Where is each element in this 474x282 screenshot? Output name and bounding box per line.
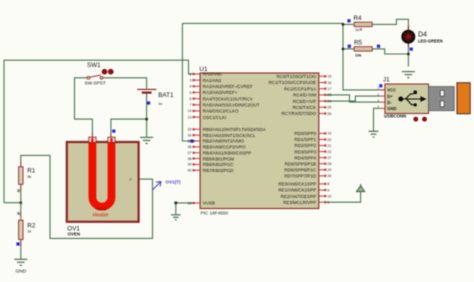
svg-text:D4: D4 [418, 32, 427, 39]
svg-text:2: 2 [190, 72, 192, 76]
svg-text:RA6/OSC2/CLKO: RA6/OSC2/CLKO [203, 109, 239, 114]
resistor R1 [20, 161, 22, 168]
LED D4 [407, 26, 409, 30]
U1 pin 27 RD4/SPP4 [319, 157, 327, 159]
svg-text:R2: R2 [27, 222, 36, 229]
node marker below R2 [16, 242, 19, 245]
wire from top rail down to U1 pin RB2 [182, 23, 194, 141]
wire T-sense loop: oven T pin to R1 top [21, 155, 153, 238]
svg-text:25: 25 [327, 106, 331, 110]
switch SW1 [87, 75, 103, 79]
svg-text:28: 28 [327, 162, 331, 166]
wire R2 bottom to ground [20, 239, 22, 258]
origin marker R2 [17, 212, 20, 215]
svg-text:R5: R5 [354, 40, 363, 47]
U1 pin 40 RB7/KBI3/PGD [193, 169, 201, 171]
svg-text:R4: R4 [354, 15, 363, 22]
svg-text:RA2/AN2/VREF-/CVREF: RA2/AN2/VREF-/CVREF [203, 84, 253, 89]
U1 pin 1 RE3/MCLR/VPP [319, 201, 327, 203]
svg-text:39: 39 [188, 163, 192, 167]
wire U1 pin 24 D+ to J1 D+ [326, 96, 381, 101]
svg-text:10k: 10k [355, 53, 362, 57]
svg-text:RA4/T0CKI/C1OUT/RCV: RA4/T0CKI/C1OUT/RCV [203, 96, 253, 101]
svg-text:RC7/RX/DT/SDO: RC7/RX/DT/SDO [281, 111, 316, 116]
oven pin sockets [89, 137, 96, 142]
svg-text:19: 19 [327, 132, 331, 136]
svg-text:RB7/KBI3/PGD: RB7/KBI3/PGD [203, 168, 235, 173]
wire RA0 net: divider mid to U1 pin 2 [4, 60, 194, 203]
svg-text:OV1(T): OV1(T) [166, 179, 182, 184]
svg-text:RA5/AN4/SS/LVDIN/C2OUT: RA5/AN4/SS/LVDIN/C2OUT [203, 102, 260, 107]
wire SW1 right to battery top [103, 78, 147, 89]
wire J1 GND pin to ground [374, 108, 381, 131]
node marker at BAT1 [147, 101, 150, 104]
ground at VUSB [171, 215, 181, 220]
svg-text:R1: R1 [27, 168, 36, 175]
junction node R1/R2 midpoint [19, 201, 22, 204]
svg-text:GND: GND [387, 106, 396, 111]
junction node at rail/R4 [342, 23, 345, 26]
svg-text:RD1/SPP1: RD1/SPP1 [294, 137, 316, 142]
wire U1 pin 23 D- to J1 D- [326, 95, 381, 102]
marker at RB2 wire [190, 140, 193, 143]
U1 pin 26 RC7/RX/DT/SDO [319, 112, 327, 114]
U1 pin 34 RB1/AN10/INT1/SCK/SCL [193, 134, 201, 136]
svg-text:36: 36 [188, 145, 192, 149]
svg-text:VCC: VCC [387, 88, 396, 93]
wire VUSB pin 18 to ground [176, 203, 194, 214]
svg-text:22: 22 [327, 150, 331, 154]
svg-text:RD0/SPP0: RD0/SPP0 [294, 131, 316, 136]
U1 pin 14 RA6/OSC2/CLKO [193, 110, 201, 112]
ground below J1 GND [369, 131, 379, 137]
svg-text:RD6/SPP6/P1C: RD6/SPP6/P1C [284, 167, 317, 172]
svg-text:14: 14 [188, 109, 192, 113]
svg-text:RA3/AN3/VREF+: RA3/AN3/VREF+ [203, 90, 238, 95]
oven pin 1 lead [91, 133, 93, 139]
svg-text:RB2/AN8/INT2/VMO: RB2/AN8/INT2/VMO [203, 139, 245, 144]
U1 pin 8 RE0/AN5/CK1SPP [319, 183, 327, 185]
SW1 actuator dots [102, 69, 107, 74]
ground below battery [140, 137, 153, 143]
J1 actuator dots [414, 117, 418, 121]
svg-text:RD7/SPP7/P1D: RD7/SPP7/P1D [284, 174, 317, 179]
power terminal at MCLR [357, 184, 365, 192]
svg-text:RD3/SPP3: RD3/SPP3 [294, 149, 316, 154]
wire SW1 left to oven pin 1 [75, 78, 93, 134]
ground below R2 [14, 259, 27, 265]
U1 pin 23 RC4/D-/VM [319, 94, 327, 96]
svg-text:37: 37 [188, 151, 192, 155]
U1 pin 38 RB5/KBI1/PGM [193, 157, 201, 159]
U1 pin 16 RC1/T1OSI/CCP2/UOE [319, 81, 327, 83]
oven heater element [92, 143, 111, 207]
U1 pin 21 RD2/SPP2 [319, 144, 327, 146]
svg-text:16: 16 [327, 81, 331, 85]
svg-text:23: 23 [327, 93, 331, 97]
node marker R4 left [347, 19, 350, 22]
LED cathode lead [407, 44, 409, 48]
U1 pin 37 RB4/AN11/KBI0/CSSPP [193, 152, 201, 154]
svg-text:RB1/AN10/INT1/SCK/SCL: RB1/AN10/INT1/SCK/SCL [203, 133, 256, 138]
svg-text:6: 6 [190, 97, 192, 101]
USB plug shell [429, 87, 455, 111]
U1 pin 20 RD1/SPP1 [319, 138, 327, 140]
svg-text:29: 29 [327, 168, 331, 172]
svg-text:VUSB: VUSB [203, 201, 215, 206]
svg-text:5: 5 [190, 91, 192, 95]
origin marker R1 [17, 189, 20, 192]
wire VCC top rail from U1 area to R4/R5/J1 rail [182, 23, 385, 90]
junction node battery minus [145, 118, 148, 121]
junction node LED cathode [407, 53, 410, 56]
U1 pin 29 RD6/SPP6/P1C [319, 169, 327, 171]
svg-text:9: 9 [327, 188, 329, 192]
resistor R4 [354, 22, 372, 26]
svg-text:PIC 18F4550: PIC 18F4550 [201, 210, 229, 215]
node marker R5 left [348, 45, 351, 48]
oven pin 2 lead [110, 133, 112, 139]
svg-text:1k: 1k [355, 28, 359, 32]
node marker R5 right [377, 45, 380, 48]
wire R1 bottom to junction to R2 top [20, 184, 22, 217]
svg-text:RE3/MCLR/VPP: RE3/MCLR/VPP [283, 200, 316, 205]
svg-text:RD4/SPP4: RD4/SPP4 [294, 155, 316, 160]
svg-text:RA0/AN0: RA0/AN0 [203, 72, 222, 77]
U1 pin 36 RB3/AN9/CCP2/VPO [193, 146, 201, 148]
U1 pin 30 RD7/SPP7/P1D [319, 175, 327, 177]
svg-text:RA1/AN1: RA1/AN1 [203, 78, 222, 83]
wire R5 left to rail [343, 48, 355, 50]
wire R4 right to LED D4 anode [372, 19, 408, 30]
svg-text:4: 4 [190, 85, 192, 89]
battery BAT1 [137, 89, 156, 92]
svg-text:RC6/TX/CK: RC6/TX/CK [293, 105, 317, 110]
U1 pin 7 RA5/AN4/SS/LVDIN/C2OUT [193, 104, 201, 106]
svg-text:15: 15 [327, 75, 331, 79]
resistor R2 [20, 214, 22, 221]
svg-text:RB6/KBI2/PGC: RB6/KBI2/PGC [203, 162, 235, 167]
svg-text:18: 18 [188, 201, 192, 205]
svg-text:Heater: Heater [93, 213, 109, 219]
U1 pin 24 RC5/D+/VP [319, 100, 327, 102]
node marker at oven pin 2 [112, 130, 115, 133]
svg-text:40: 40 [188, 169, 192, 173]
U1 pin 10 RE2/AN7/OESPP [319, 195, 327, 197]
U1 pin 18 VUSB [193, 202, 201, 204]
svg-text:RC2/CCP1/P1A: RC2/CCP1/P1A [284, 86, 316, 91]
svg-text:RB0/AN12/INT0/FLT0/SDI/SDA: RB0/AN12/INT0/FLT0/SDI/SDA [203, 127, 266, 132]
svg-text:27: 27 [327, 156, 331, 160]
svg-text:RB3/AN9/CCP2/VPO: RB3/AN9/CCP2/VPO [203, 145, 246, 150]
wire LED cathode to junction to ground [407, 44, 409, 67]
U1 pin 39 RB6/KBI2/PGC [193, 163, 201, 165]
svg-text:RC5/D+/VP: RC5/D+/VP [293, 99, 316, 104]
U1 pin 3 RA1/AN1 [193, 79, 201, 81]
svg-text:10: 10 [327, 194, 331, 198]
svg-text:26: 26 [327, 112, 331, 116]
U1 pin 35 RB2/AN8/INT2/VMO [193, 140, 201, 142]
svg-text:RD5/SPP5/P1B: RD5/SPP5/P1B [285, 161, 317, 166]
wire divider junction to rail [4, 202, 21, 204]
U1 pin 5 RA3/AN3/VREF+ [193, 91, 201, 93]
svg-text:24: 24 [327, 99, 331, 103]
node marker J1 VCC [379, 84, 382, 87]
origin marker R4 [360, 28, 362, 30]
U1 pin 19 RD0/SPP0 [319, 132, 327, 134]
USB trident symbol [399, 91, 427, 107]
svg-text:RB4/AN11/KBI0/CSSPP: RB4/AN11/KBI0/CSSPP [203, 150, 251, 155]
svg-text:RC4/D-/VM: RC4/D-/VM [293, 93, 316, 98]
ground below LED [402, 72, 415, 78]
USB plug overmold [457, 83, 470, 114]
svg-text:33: 33 [188, 128, 192, 132]
svg-text:3: 3 [190, 78, 192, 82]
U1 pin 17 RC2/CCP1/P1A [319, 88, 327, 90]
svg-text:17: 17 [327, 87, 331, 91]
svg-text:D-: D- [387, 100, 392, 105]
junction node at rail/R5 [342, 48, 345, 51]
svg-text:8: 8 [327, 182, 329, 186]
svg-text:1k: 1k [27, 230, 31, 234]
svg-text:21: 21 [327, 144, 331, 148]
oven OV1 body [67, 142, 139, 222]
microcontroller U1 PIC18F4550 [200, 73, 319, 209]
svg-text:BAT1: BAT1 [158, 92, 174, 99]
wire R4 left to rail [343, 23, 355, 25]
svg-text:13: 13 [188, 115, 192, 119]
wire R5 right to LED cathode junction [372, 49, 408, 54]
svg-text:RD2/SPP2: RD2/SPP2 [294, 143, 316, 148]
U1 pin 9 RE1/AN6/CK2SPP [319, 189, 327, 191]
svg-text:RE2/AN7/OESPP: RE2/AN7/OESPP [281, 194, 317, 199]
svg-text:RC0/T1OSO/T1CKI: RC0/T1OSO/T1CKI [277, 74, 317, 79]
U1 pin 28 RD5/SPP5/P1B [319, 163, 327, 165]
svg-text:LED-GREEN: LED-GREEN [418, 39, 443, 44]
U1 pin 4 RA2/AN2/VREF-/CVREF [193, 85, 201, 87]
svg-text:RE0/AN5/CK1SPP: RE0/AN5/CK1SPP [278, 182, 316, 187]
svg-text:SW1: SW1 [87, 62, 101, 69]
svg-text:OSC1/CLKI: OSC1/CLKI [203, 115, 227, 120]
U1 pin 15 RC0/T1OSO/T1CKI [319, 75, 327, 77]
svg-text:4v: 4v [158, 102, 162, 106]
U1 pin 13 OSC1/CLKI [193, 116, 201, 118]
svg-text:USBCONN: USBCONN [384, 114, 406, 119]
svg-text:RE1/AN6/CK2SPP: RE1/AN6/CK2SPP [278, 188, 316, 193]
svg-text:30: 30 [327, 174, 331, 178]
svg-text:+00.0: +00.0 [95, 207, 107, 212]
svg-text:SW-SPST: SW-SPST [85, 80, 106, 85]
svg-text:RC1/T1OSI/CCP2/UOE: RC1/T1OSI/CCP2/UOE [269, 80, 317, 85]
svg-text:RB5/KBI1/PGM: RB5/KBI1/PGM [203, 156, 235, 161]
USB connector J1 [385, 84, 429, 114]
svg-text:J1: J1 [383, 76, 390, 83]
svg-text:D+: D+ [387, 94, 393, 99]
svg-text:34: 34 [188, 133, 192, 137]
U1 pin 2 RA0/AN0 [193, 73, 201, 75]
svg-text:7: 7 [190, 103, 192, 107]
U1 pin 6 RA4/T0CKI/C1OUT/RCV [193, 98, 201, 100]
svg-text:GND: GND [15, 268, 26, 274]
svg-text:1: 1 [327, 201, 329, 205]
node marker LED cathode [410, 48, 413, 51]
voltage probe OV1(T) [153, 181, 161, 190]
svg-text:38: 38 [188, 157, 192, 161]
svg-text:20: 20 [327, 138, 331, 142]
U1 pin 22 RD3/SPP3 [319, 150, 327, 152]
resistor R5 [354, 47, 372, 51]
wire U1 pin 1 MCLR to power terminal [326, 192, 361, 203]
U1 pin 33 RB0/AN12/INT0/FLT0/SDI/SDA [193, 128, 201, 130]
U1 pin 25 RC6/TX/CK [319, 106, 327, 108]
svg-text:9k: 9k [27, 175, 31, 179]
wire battery bottom to junction/oven pin 2/ground [146, 93, 148, 137]
svg-text:OVEN: OVEN [68, 231, 80, 236]
